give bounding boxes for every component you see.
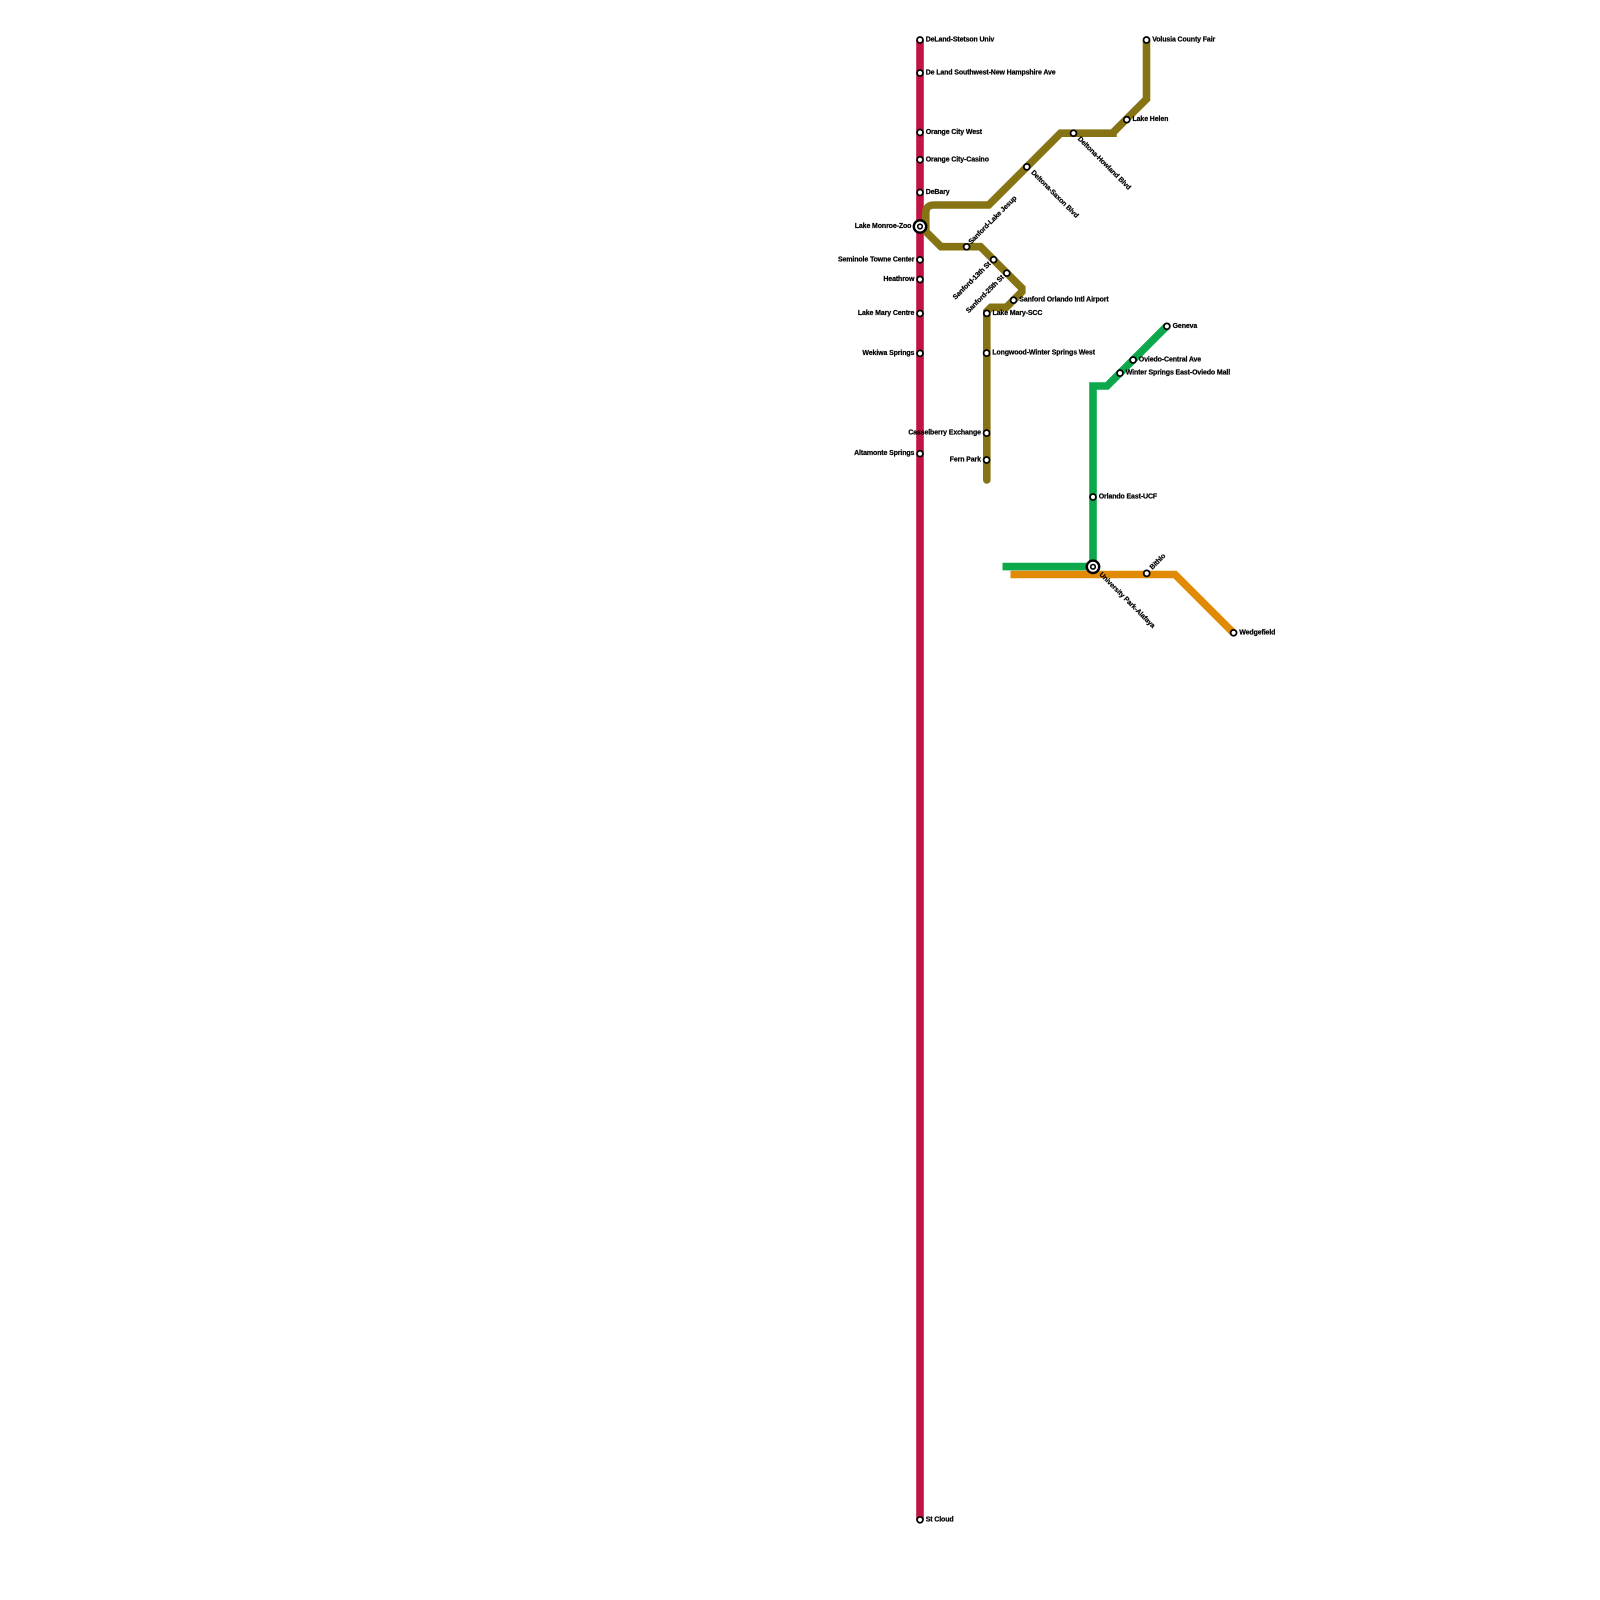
svg-text:Lake Helen: Lake Helen (1133, 116, 1169, 123)
station Orange City-Casino (916, 156, 989, 164)
interchange Lake Monroe-Zoo (855, 219, 928, 234)
svg-text:Winter Springs East-Oviedo Mal: Winter Springs East-Oviedo Mall (1126, 370, 1231, 377)
svg-text:DeLand-Stetson Univ: DeLand-Stetson Univ (926, 37, 995, 44)
svg-text:Casselberry Exchange: Casselberry Exchange (908, 430, 981, 437)
svg-text:Lake Monroe-Zoo: Lake Monroe-Zoo (855, 223, 912, 230)
interchange University Park-Alafaya (1086, 559, 1156, 629)
station Seminole Towne Center (838, 256, 924, 264)
svg-text:Volusia County Fair: Volusia County Fair (1152, 37, 1215, 44)
wire olive line (Volusia County Fair - Fern Park) (926, 40, 1147, 480)
station Altamonte Springs (854, 450, 924, 458)
wire crimson line (DeLand-St Cloud) (916, 40, 924, 1520)
svg-text:Wekiwa Springs: Wekiwa Springs (862, 350, 914, 357)
svg-text:Orange City West: Orange City West (926, 129, 983, 136)
station Orlando East-UCF (1089, 493, 1158, 501)
station Wedgefield (1230, 629, 1276, 637)
svg-text:Oviedo-Central Ave: Oviedo-Central Ave (1139, 357, 1202, 364)
station Orange City West (916, 129, 983, 137)
station Winter Springs East-Oviedo Mall (1116, 369, 1230, 377)
svg-text:DeBary: DeBary (926, 189, 950, 196)
svg-text:St Cloud: St Cloud (926, 1516, 954, 1523)
station Casselberry Exchange (908, 429, 990, 437)
svg-text:Fern Park: Fern Park (950, 457, 981, 464)
station Volusia County Fair (1143, 36, 1216, 44)
svg-text:Wedgefield: Wedgefield (1239, 629, 1275, 636)
station Fern Park (950, 456, 991, 464)
station Sanford-Lake Jesup (963, 195, 1019, 251)
station St Cloud (916, 1516, 953, 1524)
station Oviedo-Central Ave (1129, 356, 1201, 364)
svg-text:Heathrow: Heathrow (883, 276, 915, 283)
station Sanford Orlando Intl Airport (1010, 296, 1110, 304)
svg-text:Orange City-Casino: Orange City-Casino (926, 156, 989, 163)
station DeLand-Stetson Univ (916, 36, 994, 44)
station Longwood-Winter Springs West (983, 349, 1096, 357)
station Lake Helen (1123, 116, 1168, 124)
station De Land Southwest-New Hampshire Ave (916, 69, 1056, 77)
svg-text:De Land Southwest-New Hampshir: De Land Southwest-New Hampshire Ave (926, 70, 1056, 77)
station Geneva (1163, 322, 1197, 330)
svg-text:Sanford Orlando Intl Airport: Sanford Orlando Intl Airport (1019, 297, 1109, 304)
station Lake Mary Centre (858, 310, 924, 318)
station Heathrow (883, 276, 923, 284)
station Lake Mary-SCC (983, 310, 1042, 318)
svg-text:Geneva: Geneva (1173, 323, 1198, 330)
wire green line (Geneva - west stub) (1003, 326, 1167, 566)
svg-text:Orlando East-UCF: Orlando East-UCF (1099, 494, 1158, 501)
station DeBary (916, 189, 950, 197)
svg-text:Lake Mary-SCC: Lake Mary-SCC (993, 310, 1043, 317)
svg-text:Altamonte Springs: Altamonte Springs (854, 450, 914, 457)
station Sanford-13th St (952, 256, 997, 301)
station Deltona-Howland Blvd (1070, 129, 1132, 191)
svg-text:Seminole Towne Center: Seminole Towne Center (838, 256, 915, 263)
station Wekiwa Springs (862, 350, 923, 358)
station Sanford-25th St (965, 269, 1010, 314)
station Deltona-Saxon Blvd (1023, 163, 1080, 220)
station Bithlo (1143, 553, 1167, 577)
svg-text:Lake Mary Centre: Lake Mary Centre (858, 310, 915, 317)
svg-text:Longwood-Winter Springs West: Longwood-Winter Springs West (992, 350, 1095, 357)
wire orange line (west stub - Wedgefield) (1011, 575, 1234, 634)
